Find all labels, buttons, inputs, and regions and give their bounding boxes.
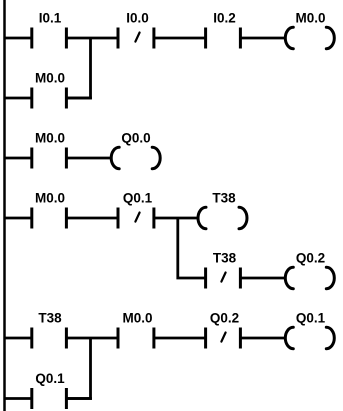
coil T38: [198, 207, 247, 228]
wire rung1 rail to I0.1: [4, 37, 33, 40]
coil M0.0: [285, 27, 334, 48]
junction branch4 vertical: [66, 338, 90, 399]
wire rung3 Q0.1 to coil: [154, 217, 199, 220]
wire rung3 M0.0 to Q0.1: [66, 217, 118, 220]
wire branch3 T38 to coil: [240, 277, 286, 280]
junction branch1 vertical: [66, 38, 90, 98]
svg-text:Q0.2: Q0.2: [296, 251, 325, 266]
left power rail: [3, 0, 6, 411]
wire rung4 M0.0 to Q0.2: [154, 337, 206, 340]
NC contact Q0.2: [206, 328, 241, 349]
NC contact Q0.1: [118, 208, 154, 229]
svg-text:M0.0: M0.0: [122, 311, 152, 326]
svg-text:I0.0: I0.0: [126, 11, 149, 26]
NC contact I0.0: [118, 28, 154, 49]
contact M0.0 rung3: [32, 208, 67, 229]
wire rung1 I0.2 to coil: [240, 37, 286, 40]
wire rung1 I0.1 to I0.0: [66, 37, 118, 40]
contact I0.1: [32, 28, 67, 49]
wire branch1 rail to M0.0: [4, 97, 33, 100]
NC contact T38: [206, 268, 241, 289]
svg-text:Q0.1: Q0.1: [123, 191, 153, 206]
svg-text:M0.0: M0.0: [295, 11, 325, 26]
wire branch4 Q0.1 to junction: [66, 397, 92, 400]
contact M0.0 rung2: [32, 148, 67, 169]
coil Q0.1: [285, 327, 334, 348]
junction branch3 vertical: [178, 218, 206, 278]
wire rung1 I0.0 to I0.2: [154, 37, 206, 40]
wire rung2 M0.0 to coil: [66, 157, 112, 160]
svg-text:M0.0: M0.0: [35, 191, 65, 206]
coil Q0.2: [285, 267, 334, 288]
svg-text:M0.0: M0.0: [35, 71, 65, 86]
svg-text:T38: T38: [213, 251, 237, 266]
wire rung4 T38 to M0.0: [66, 337, 118, 340]
svg-text:T38: T38: [212, 191, 236, 206]
svg-text:I0.1: I0.1: [39, 11, 62, 26]
contact I0.2: [206, 28, 241, 49]
svg-text:Q0.0: Q0.0: [121, 131, 150, 146]
contact M0.0 branch1: [32, 88, 67, 109]
wire rung2 rail to M0.0: [4, 157, 33, 160]
wire branch1 M0.0 to junction: [66, 97, 92, 100]
svg-text:Q0.1: Q0.1: [35, 371, 65, 386]
wire rung4 rail to T38: [4, 337, 33, 340]
contact M0.0 rung4: [118, 328, 154, 349]
contact Q0.1 branch4: [32, 388, 67, 409]
wire rung4 Q0.2 to coil: [240, 337, 286, 340]
svg-text:T38: T38: [38, 311, 62, 326]
contact T38 rung4: [32, 328, 67, 349]
svg-text:I0.2: I0.2: [213, 11, 236, 26]
svg-text:M0.0: M0.0: [35, 131, 65, 146]
svg-text:Q0.1: Q0.1: [296, 311, 326, 326]
coil Q0.0: [111, 147, 160, 168]
wire branch4 rail to Q0.1: [4, 397, 33, 400]
svg-text:Q0.2: Q0.2: [210, 311, 239, 326]
wire rung3 rail to M0.0: [4, 217, 33, 220]
